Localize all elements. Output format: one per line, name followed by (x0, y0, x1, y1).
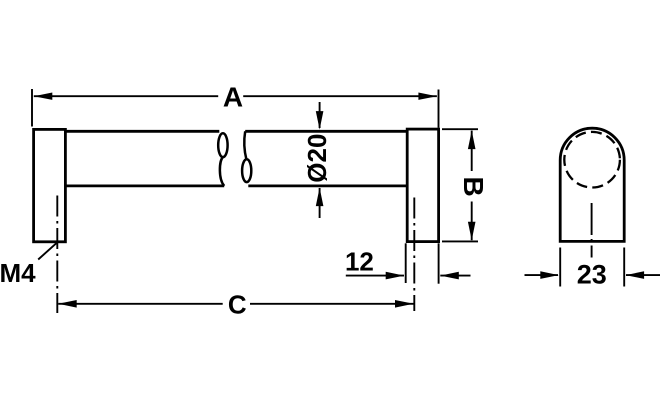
right post (side view) (407, 129, 438, 242)
label A (223, 81, 243, 112)
dimension 23 arrowheads (540, 271, 644, 279)
dimension B line (471, 131, 473, 241)
dimension 12 extension lines (406, 243, 439, 283)
svg-text:M4: M4 (0, 258, 36, 288)
label 23 (577, 260, 607, 290)
bar right segment (245, 131, 407, 186)
svg-text:B: B (458, 176, 489, 196)
dimension C line (58, 303, 413, 305)
dimension B extension lines (442, 129, 478, 241)
label diameter 20 (rotated) (302, 134, 332, 183)
dimension 23 lines (525, 274, 660, 276)
dimension A extension lines (32, 89, 439, 128)
left post (side view) (34, 129, 66, 241)
dimension 23 extension lines (560, 248, 624, 287)
dimension C arrowheads (58, 300, 413, 308)
label 12 (345, 247, 374, 277)
dimension A arrowheads (34, 93, 437, 100)
svg-text:23: 23 (577, 260, 607, 290)
label C (228, 290, 247, 320)
dimension A line (34, 95, 437, 97)
end view outline (560, 128, 624, 241)
M4 leader line (38, 242, 58, 260)
svg-text:A: A (223, 81, 243, 112)
dimension 12 lines (346, 275, 471, 277)
svg-text:C: C (228, 290, 247, 320)
center line right post (413, 198, 415, 312)
end view center line (591, 203, 593, 258)
bar left segment (65, 131, 224, 186)
label B (rotated) (458, 176, 489, 196)
svg-text:Ø20: Ø20 (302, 134, 332, 183)
dimension diameter 20 lines (319, 102, 321, 218)
end view dashed circle (bar cross-section) (564, 132, 620, 188)
dimension 12 arrowheads (386, 272, 459, 280)
dimension B arrowheads (468, 131, 476, 241)
break symbol left end (218, 133, 227, 186)
svg-text:12: 12 (345, 247, 374, 277)
center line left post (56, 196, 58, 314)
label M4 (0, 258, 36, 288)
dimension diameter 20 arrowheads (316, 111, 324, 206)
break symbol right end (242, 131, 251, 182)
